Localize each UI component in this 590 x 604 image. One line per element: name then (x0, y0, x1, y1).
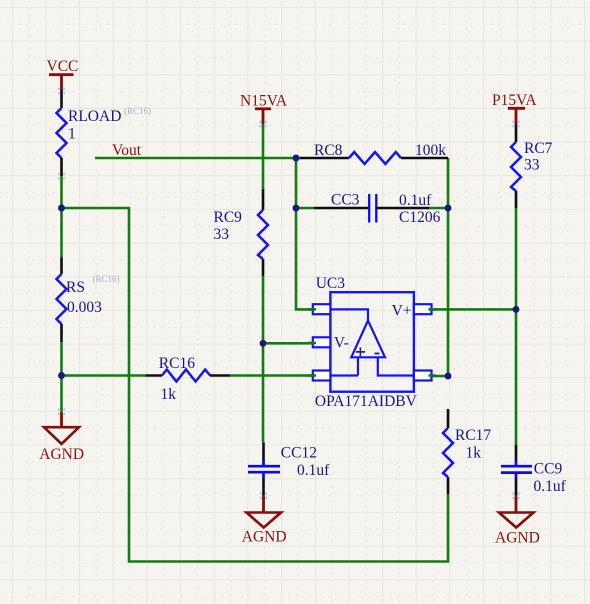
junction CC3 right node (445, 205, 452, 212)
hotspot marker N15VA stem (260, 121, 265, 128)
wire RLOAD bottom to RS junction (60, 176, 63, 208)
svg-text:1k: 1k (161, 386, 177, 403)
svg-text:(RC16): (RC16) (124, 106, 151, 116)
hotspot marker VCC stem (59, 88, 64, 95)
svg-text:1: 1 (68, 126, 76, 143)
wire V- junction to op-amp pin (263, 342, 313, 345)
svg-text:V+: V+ (392, 302, 412, 319)
svg-text:0.1uf: 0.1uf (297, 462, 330, 479)
svg-text:AGND: AGND (242, 528, 287, 545)
pin RLOAD top (60, 90, 63, 108)
svg-text:CC3: CC3 (331, 192, 360, 209)
svg-text:UC3: UC3 (316, 275, 346, 292)
power P15VA (492, 92, 537, 124)
pin RC17 top (447, 409, 450, 428)
op-amp pin 3 (left bottom) (313, 371, 331, 381)
svg-text:0.003: 0.003 (67, 299, 102, 316)
junction V- node (260, 340, 267, 347)
op-amp pin V+ (right top) (414, 304, 432, 314)
wire CC3 left stub (296, 207, 314, 210)
svg-text:RLOAD: RLOAD (68, 108, 121, 125)
op-amp pin 2 (left middle, V-) (313, 337, 331, 347)
wire RS bottom to AGND junction (60, 342, 63, 376)
svg-text:CC9: CC9 (534, 461, 563, 478)
pin RS bottom (60, 324, 63, 342)
svg-text:RC8: RC8 (314, 142, 343, 159)
op-amp UC3 triangle (330, 302, 414, 375)
wire AGND stub below RS junction (60, 376, 63, 412)
pin CC3 left (314, 207, 370, 210)
svg-text:RC16: RC16 (159, 355, 195, 372)
resistor RC9 (214, 209, 269, 259)
pin RC16 right (210, 374, 230, 377)
capacitor CC12 (248, 445, 330, 480)
svg-text:CC12: CC12 (281, 445, 317, 462)
wire tip into op-amp pin 2 (308, 342, 316, 345)
resistor RC17 (443, 427, 491, 477)
pin RLOAD bottom (60, 158, 63, 176)
capacitor CC3 (331, 192, 441, 227)
resistor RC8 (314, 142, 446, 164)
pin RC7 top (515, 124, 518, 142)
svg-text:33: 33 (524, 157, 540, 174)
svg-text:VCC: VCC (47, 58, 79, 75)
wire feedback column x=296 to op-amp IN pin (296, 158, 313, 309)
junction Vout/feedback node (293, 155, 300, 162)
junction RLOAD/RS node (58, 205, 65, 212)
wire op-amp output to junction (432, 375, 449, 378)
wire RS top (60, 208, 63, 257)
power N15VA (240, 93, 288, 125)
wire CC3 right stub (429, 207, 448, 210)
wire RC16 right to op-amp pin (230, 374, 313, 377)
pin CC12 top (262, 442, 265, 461)
ground AGND left (39, 412, 84, 463)
pin RC16 left (145, 374, 162, 377)
power VCC (47, 58, 79, 90)
svg-text:N15VA: N15VA (240, 93, 288, 110)
pin RS top (60, 257, 63, 274)
svg-text:AGND: AGND (495, 529, 540, 546)
svg-text:0.1uf: 0.1uf (399, 192, 432, 209)
wire P15VA column RC7 to CC9 (515, 208, 518, 445)
op-amp UC3 body (315, 275, 418, 410)
pin RC17 bottom (447, 477, 450, 494)
pin RC8 right (401, 157, 448, 160)
resistor RLOAD (57, 106, 152, 158)
svg-text:0.1uf: 0.1uf (534, 478, 567, 495)
capacitor CC9 (501, 461, 567, 496)
junction CC3 left node (293, 205, 300, 212)
wire tip into op-amp pin 1 (308, 308, 316, 311)
svg-text:OPA171AIDBV: OPA171AIDBV (315, 393, 418, 410)
ground AGND right (495, 496, 540, 547)
svg-text:RS: RS (66, 279, 85, 296)
op-amp pin out (right bottom) (414, 371, 432, 381)
op-amp pin 1 (left top) (313, 304, 331, 314)
svg-text:1k: 1k (466, 445, 482, 462)
ground AGND middle (242, 496, 287, 546)
svg-text:C1206: C1206 (399, 209, 441, 226)
svg-text:RC7: RC7 (524, 140, 553, 157)
hotspot marker RLOAD bottom pin (59, 173, 64, 180)
wire Vout horizontal net (95, 157, 300, 160)
resistor RC7 (511, 140, 553, 191)
pin CC3 right (376, 207, 429, 210)
wire RS junction to RC16 left (62, 374, 146, 377)
svg-text:(RC16): (RC16) (93, 274, 120, 284)
pin CC9 bottom (515, 478, 518, 495)
junction output/RC17 node (445, 373, 452, 380)
wire tip into op-amp pin 3 (308, 374, 316, 377)
junction V+/P15VA node (513, 306, 520, 313)
svg-text:AGND: AGND (39, 446, 84, 463)
hotspot marker AGND right stem (513, 492, 518, 499)
svg-text:RC17: RC17 (455, 427, 491, 444)
svg-text:100k: 100k (415, 142, 446, 159)
wire RC8 right column x=448 down to output junction (447, 158, 450, 376)
wire RC17 bottom loop to left column (62, 208, 449, 562)
pin RC9 top (262, 189, 265, 210)
wire V+ pin to P15VA column (432, 308, 517, 311)
resistor RC16 (159, 355, 210, 403)
pin CC9 top (515, 445, 518, 461)
svg-text:Vout: Vout (112, 142, 142, 159)
pin RC7 bottom (515, 191, 518, 208)
hotspot marker AGND left stem (59, 408, 64, 415)
junction RS/AGND/RC16 node (58, 372, 65, 379)
wire N15VA down to RC9 (262, 124, 265, 189)
svg-text:P15VA: P15VA (492, 92, 537, 109)
svg-text:RC9: RC9 (214, 209, 243, 226)
svg-text:33: 33 (214, 226, 230, 243)
pin RC9 bottom (262, 259, 265, 276)
hotspot marker P15VA stem (513, 121, 518, 128)
hotspot marker AGND middle stem (261, 492, 266, 499)
pin RC8 left (300, 157, 349, 160)
wire RC9 bottom column through V- junction to CC12 (262, 276, 265, 442)
svg-text:V-: V- (334, 335, 349, 352)
wire tip into op-amp V+ pin (429, 309, 437, 375)
resistor RS (57, 274, 120, 324)
pin CC12 bottom (262, 478, 265, 495)
